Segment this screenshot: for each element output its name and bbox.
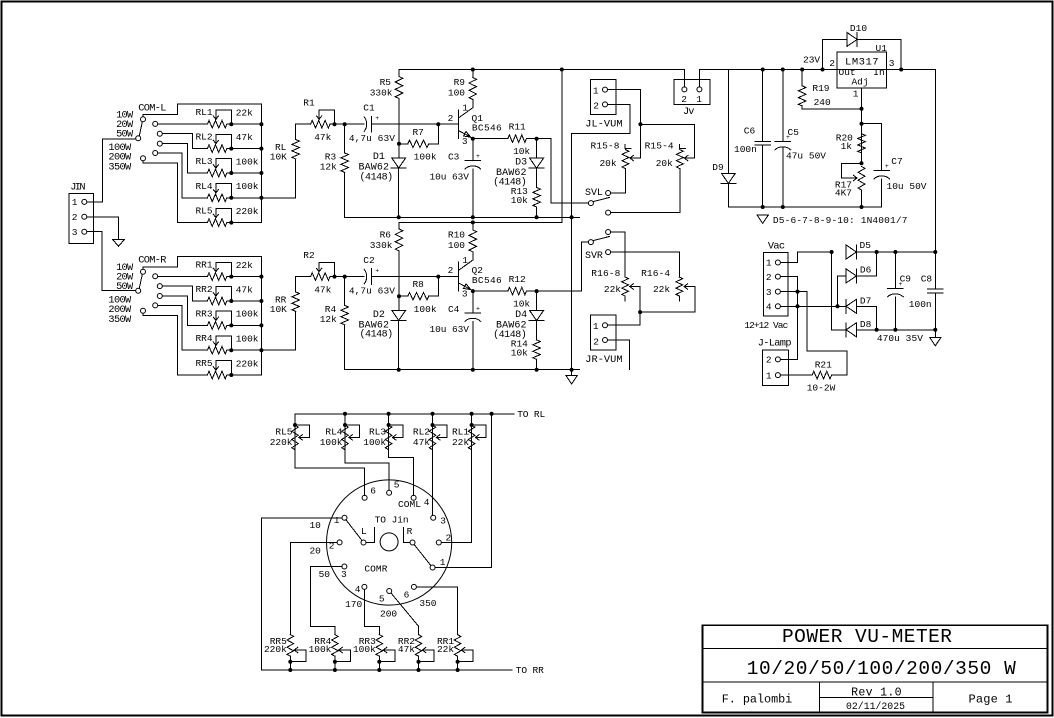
trimmer RL1 [207,120,226,128]
svg-text:47u 50V: 47u 50V [786,150,826,161]
svg-text:2: 2 [766,355,772,366]
svg-text:100k: 100k [353,644,376,655]
diode D6 [838,275,847,277]
svg-text:R8: R8 [412,279,424,290]
diode D10 [821,68,825,72]
trimmer RR1 22k [454,635,461,657]
wire SVR contact1 to R16-8 [611,232,625,277]
svg-text:D9: D9 [712,162,724,173]
trimmer R16-8 22k [622,277,629,296]
resistor R6 330k [398,222,400,229]
svg-text:10k: 10k [511,348,528,359]
svg-text:2: 2 [593,101,599,112]
svg-text:22k: 22k [604,284,621,295]
svg-text:R21: R21 [815,359,832,370]
svg-text:47k: 47k [314,285,331,296]
svg-text:D10: D10 [850,23,867,34]
svg-text:3: 3 [766,287,772,298]
ground symbol rectifier [934,330,936,338]
wire SVR contact2 to R16-4 [611,252,680,277]
svg-text:D7: D7 [860,295,871,306]
svg-text:3: 3 [72,227,78,238]
svg-text:RR2: RR2 [195,284,212,295]
wire output row to divider [261,349,295,351]
rotary contact 6 [411,584,416,589]
trimmer RL4 [207,194,226,202]
svg-text:220k: 220k [270,437,293,448]
trimmer RR3 100k [376,635,383,657]
trimmer RR1 [207,273,226,281]
svg-text:+: + [375,115,379,122]
resistor R13 10k [536,169,538,188]
svg-text:D6: D6 [860,265,872,276]
svg-text:5: 5 [394,479,400,490]
wire +V top rail (left segment) [399,70,684,88]
wire In pin to rail [887,69,902,71]
svg-text:2: 2 [448,113,454,124]
rotary contact 4 [362,584,367,589]
svg-text:4: 4 [766,302,772,313]
svg-text:D1: D1 [373,152,385,163]
trimmer RL1 22k [471,414,473,450]
wire RR4 to bus [231,349,261,351]
svg-text:C5: C5 [788,127,800,138]
resistor RR 10K [292,292,300,312]
wire contact 2 bottom to RR5 [290,542,337,634]
rotary contact 4 [411,495,416,500]
svg-text:2: 2 [72,212,78,223]
trimmer RR2 [207,297,226,305]
rotary contact 1 [342,515,347,520]
svg-text:TO RL: TO RL [517,409,545,420]
svg-text:02/11/2025: 02/11/2025 [846,701,905,712]
node D3 [535,137,539,141]
bus right vertical RL bank [260,104,262,222]
svg-text:50: 50 [319,569,331,580]
wire contact3 to RL3 [163,144,208,173]
svg-text:200: 200 [380,609,397,620]
svg-text:47k: 47k [314,132,331,143]
wire position6 to RL5 [143,161,207,223]
trimmer RL4 100k [344,414,346,450]
rotary contact 5 [387,589,392,594]
svg-text:220k: 220k [236,358,259,369]
wire JIN pin2 to ground [87,217,119,240]
svg-text:R: R [407,526,413,537]
ground rail channel [345,369,580,371]
svg-text:C9: C9 [900,274,912,285]
connector JL-VUM [590,80,616,115]
svg-text:10u 63V: 10u 63V [430,324,470,335]
svg-text:U1: U1 [876,43,888,54]
svg-text:2: 2 [593,336,599,347]
wire contact 6 top to RL5 [295,450,365,496]
trimmer RL3 100k [388,414,390,450]
svg-text:10k: 10k [513,146,530,157]
svg-text:D5-6-7-8-9-10: 1N4001/7: D5-6-7-8-9-10: 1N4001/7 [773,215,908,226]
trimmer RL3 [207,169,226,177]
svg-text:10u 50V: 10u 50V [887,181,927,192]
resistor R7 100k [399,143,408,145]
svg-text:100: 100 [448,87,465,98]
svg-text:10K: 10K [270,152,287,163]
connector Vac [764,253,788,317]
ground rail channel [345,216,580,218]
svg-text:100k: 100k [309,644,332,655]
svg-text:3: 3 [462,288,468,299]
svg-text:R16-4: R16-4 [641,268,670,279]
wire contact4 to RL4 [158,153,208,198]
wiper R [410,540,415,545]
regulator U1 LM317 [837,52,887,88]
capacitor C4 10u 63V [472,291,474,313]
wire RR1 top feed from switch position 1 [143,257,261,277]
wire contact1 to RR1 [158,275,208,277]
transistor Q1 BC546 [458,110,460,139]
svg-text:2: 2 [681,94,687,105]
wire Vac pin1 to D5 [780,252,831,263]
svg-text:SVL: SVL [585,188,603,199]
resistor R12 10k [473,290,508,292]
connector JR-VUM [590,315,616,350]
trimmer RR4 [207,346,226,354]
svg-text:RL2: RL2 [413,427,430,438]
rotary contact 2 [436,540,441,545]
node R20/R17 [860,161,864,165]
svg-text:12k: 12k [320,162,337,173]
svg-text:100k: 100k [320,437,343,448]
wire RR3 to bus [231,324,261,326]
svg-text:100k: 100k [236,156,259,167]
resistor R10 100 [471,220,475,224]
svg-text:12k: 12k [320,314,337,325]
svg-text:2: 2 [829,58,835,69]
wire TO RR bus [262,669,512,671]
wiper loop R17 [841,163,861,178]
svg-text:C1: C1 [363,102,375,113]
trimmer RR5 220k [287,635,294,657]
wire base line [372,276,459,278]
svg-text:RR3: RR3 [195,308,212,319]
svg-text:JIN: JIN [70,182,85,194]
diode D8 [832,252,847,330]
wire Vac pin4 row [780,305,846,307]
svg-text:100n: 100n [734,144,757,155]
svg-text:10K: 10K [270,304,287,315]
svg-text:Adj: Adj [851,76,868,87]
svg-text:350W: 350W [108,161,132,173]
svg-text:1: 1 [766,370,772,381]
wire RL1 to bus [231,123,261,125]
svg-text:4: 4 [424,497,430,508]
rotary hub [380,533,398,551]
wire emitter node to meter switch SVL [537,139,589,203]
svg-text:D4: D4 [515,310,527,321]
wire RR1 to bus [231,276,261,278]
svg-text:100k: 100k [363,437,386,448]
svg-text:47k: 47k [236,284,253,295]
wire R1 to C1 node [335,123,345,125]
svg-text:SVR: SVR [585,251,603,262]
trimmer R15-4 20k [676,150,683,169]
rotary switch body [327,480,452,605]
resistor R8 100k [399,295,408,297]
svg-text:350W: 350W [108,314,132,326]
ground at JIN [113,239,125,246]
svg-text:D8: D8 [860,319,872,330]
svg-text:RL1: RL1 [452,427,469,438]
trimmer RR2 47k [415,635,422,657]
node Q1 emitter [471,137,475,141]
capacitor C9 470u 35V [893,250,897,254]
title block [703,625,1048,712]
node D1 anode [397,142,401,146]
svg-text:47k: 47k [413,437,430,448]
wire contact 4 top to RL3 [389,450,414,496]
node D4 [535,289,539,293]
svg-text:+: + [375,267,379,274]
diode D1 BAW62 (4148) [398,144,400,158]
svg-text:100: 100 [448,240,465,251]
wire position6 to RR5 [143,313,207,375]
svg-text:10: 10 [309,520,321,531]
resistor R9 100 [471,68,475,72]
wire to R15-4 wiper [640,124,694,158]
trimmer RR3 [207,322,226,330]
wire Out pin to rail [823,69,838,71]
svg-text:C2: C2 [363,255,375,266]
resistor R11 10k [473,138,508,140]
connector J-Lamp [762,350,788,385]
svg-text:R11: R11 [509,121,526,132]
svg-text:100n: 100n [909,299,932,310]
capacitor C5 47u 50V [781,68,785,72]
wire RL5 to bus [231,222,261,224]
svg-text:C4: C4 [448,304,460,315]
wire rotary contact 1L to TO RR bus [262,518,342,670]
svg-text:RL2: RL2 [195,132,212,143]
diode D2 BAW62 (4148) [398,296,400,310]
svg-text:4: 4 [355,584,361,595]
svg-text:47k: 47k [398,644,415,655]
svg-text:22k: 22k [437,644,454,655]
wire RL3 to bus [231,172,261,174]
svg-text:COM-L: COM-L [138,102,166,114]
svg-text:RL5: RL5 [275,427,292,438]
svg-text:RL4: RL4 [195,181,212,192]
wire contact3 to RR3 [163,296,208,325]
wire JL-VUM pin2 to ground [572,104,631,133]
svg-text:R19: R19 [812,83,829,94]
svg-text:10/20/50/100/200/350 W: 10/20/50/100/200/350 W [747,658,1016,680]
svg-text:R2: R2 [303,250,315,261]
wire bus to rotary contact 1R [435,414,492,568]
wire JR-VUM pin2 to R ground rail [608,340,630,370]
svg-text:F. palombi: F. palombi [722,692,793,706]
svg-text:10u 63V: 10u 63V [430,171,470,182]
wiper arrow R15-8 [639,124,641,158]
wire R15-8 bottom to SVL contact1 [611,169,626,193]
wire RL1 top feed from switch position 1 [143,104,261,124]
capacitor C1 4,7u 63V [345,123,365,125]
svg-text:C3: C3 [448,151,460,162]
svg-text:Rev 1.0: Rev 1.0 [851,687,902,700]
svg-text:220k: 220k [236,206,259,217]
wire RR5 to bus [231,374,261,376]
diode D5 [846,245,856,259]
svg-text:D5: D5 [860,240,872,251]
capacitor C8 100n [933,250,937,254]
svg-text:TO RR: TO RR [516,665,544,676]
svg-text:3: 3 [889,58,895,69]
wire J-Lamp pin2 [780,358,797,360]
svg-text:50W: 50W [116,281,134,293]
capacitor C2 4,7u 63V [345,276,365,278]
connector JIN [69,194,93,244]
svg-text:BC546: BC546 [472,122,502,133]
svg-text:170: 170 [345,599,362,610]
svg-text:(4148): (4148) [360,329,394,341]
wire contact 3 top to RL2 [432,450,434,516]
wire contact 5 top to RL4 [345,450,389,490]
rotary contact 3 [431,515,436,520]
ground symbol supply [757,215,768,223]
svg-text:R15-8: R15-8 [591,140,620,151]
resistor R3 12k [344,124,346,153]
svg-text:2: 2 [766,272,772,283]
svg-text:20k: 20k [656,158,673,169]
wiper arrow R16-4 [684,286,695,288]
arm R to contact 1 [414,545,431,566]
svg-text:TO Jin: TO Jin [375,514,409,525]
svg-text:350: 350 [419,598,436,609]
node D2 anode [397,294,401,298]
diode D9 1N4001 [727,70,729,174]
switch arm COM-L [139,122,142,136]
wire +V to R channel [560,68,564,72]
trimmer R16-4 22k [676,277,683,296]
rotary contact 3 [342,564,347,569]
wire Vac pin2 down to lamp [780,277,797,360]
svg-text:JL-VUM: JL-VUM [585,119,622,131]
svg-text:2: 2 [446,533,452,544]
wire RL4 to bus [231,197,261,199]
trimmer RL5 [207,219,226,227]
trimmer RR4 100k [332,635,339,657]
wire contact2 to RR2 [163,286,208,301]
svg-text:RR1: RR1 [195,260,212,271]
wire output row to divider [261,197,295,199]
node input C2 [343,275,347,279]
trimmer R17 4K7 [858,166,865,190]
svg-text:20: 20 [309,546,321,557]
svg-text:100k: 100k [236,334,259,345]
svg-text:R15-4: R15-4 [645,140,674,151]
trimmer R15-8 20k [622,150,629,169]
svg-text:4,7u 63V: 4,7u 63V [349,285,395,296]
svg-text:RL5: RL5 [195,206,212,217]
connector Jv [674,79,710,104]
svg-text:23V: 23V [803,54,820,65]
wire R2 to C2 node [335,276,345,278]
diode D4 BAW62 (4148) [536,291,538,311]
arm L to contact 1 [346,520,362,541]
trimmer RL2 [207,145,226,153]
wiper arrow R16-8 [630,286,641,288]
resistor R20 1k [858,134,866,153]
wire R12 node to SVR pole [537,242,589,291]
svg-text:4,7u 63V: 4,7u 63V [349,133,395,144]
svg-text:Page 1: Page 1 [969,692,1013,706]
svg-text:+: + [885,163,889,170]
wire JIN pin3 to COM-R common [87,232,136,291]
svg-text:100k: 100k [414,304,437,315]
resistor R5 330k [398,70,400,77]
transistor Q2 BC546 [458,262,460,291]
wire ground link L to R [570,215,574,219]
wire R15-4 bottom to SVL contact2 [611,169,680,213]
svg-text:4K7: 4K7 [835,187,852,198]
wire contact 3 bottom to RR4 [311,567,342,635]
wire contact2 to RL2 [163,134,208,149]
svg-text:C7: C7 [891,156,902,167]
svg-text:COMR: COMR [364,564,387,575]
svg-text:C6: C6 [744,126,756,137]
svg-text:1: 1 [462,102,468,113]
capacitor C6 100n [761,68,765,72]
svg-text:22k: 22k [236,260,253,271]
wiper arrow R15-4 [684,157,694,159]
svg-text:22k: 22k [452,437,469,448]
svg-text:22k: 22k [236,108,253,119]
resistor R19 240 [800,68,804,72]
switch arm COM-R [139,274,142,288]
svg-text:3: 3 [341,569,347,580]
rotary contact 5 [387,490,392,495]
svg-text:J-Lamp: J-Lamp [758,338,792,350]
svg-text:100k: 100k [236,181,259,192]
svg-text:Vac: Vac [768,241,785,253]
svg-text:POWER VU-METER: POWER VU-METER [782,626,952,648]
svg-text:RR5: RR5 [195,358,212,369]
svg-text:220k: 220k [264,644,287,655]
svg-text:10-2W: 10-2W [807,383,836,394]
svg-text:6: 6 [404,589,410,600]
svg-text:RL1: RL1 [195,107,212,118]
bus right vertical RR bank [260,257,262,375]
svg-text:BC546: BC546 [472,275,502,286]
svg-text:330k: 330k [370,87,393,98]
svg-text:COM-R: COM-R [138,255,166,267]
wire wiper node to JR-VUM pin1 [608,312,641,325]
svg-text:R7: R7 [412,127,423,138]
svg-text:1: 1 [334,515,340,526]
svg-text:1: 1 [462,255,468,266]
svg-text:1: 1 [593,321,599,332]
svg-text:10k: 10k [511,195,528,206]
svg-text:R1: R1 [303,98,315,109]
wire RL2 to bus [231,148,261,150]
diode D7 [846,299,856,313]
svg-text:12+12 Vac: 12+12 Vac [744,320,788,331]
capacitor C3 10u 63V [472,139,474,161]
node Q2 emitter [471,289,475,293]
wire TO RL bus [295,413,514,415]
svg-text:3: 3 [462,136,468,147]
trimmer R2 47k [311,273,330,281]
svg-text:1k: 1k [841,141,853,152]
wire contact4 to RR4 [158,305,208,350]
